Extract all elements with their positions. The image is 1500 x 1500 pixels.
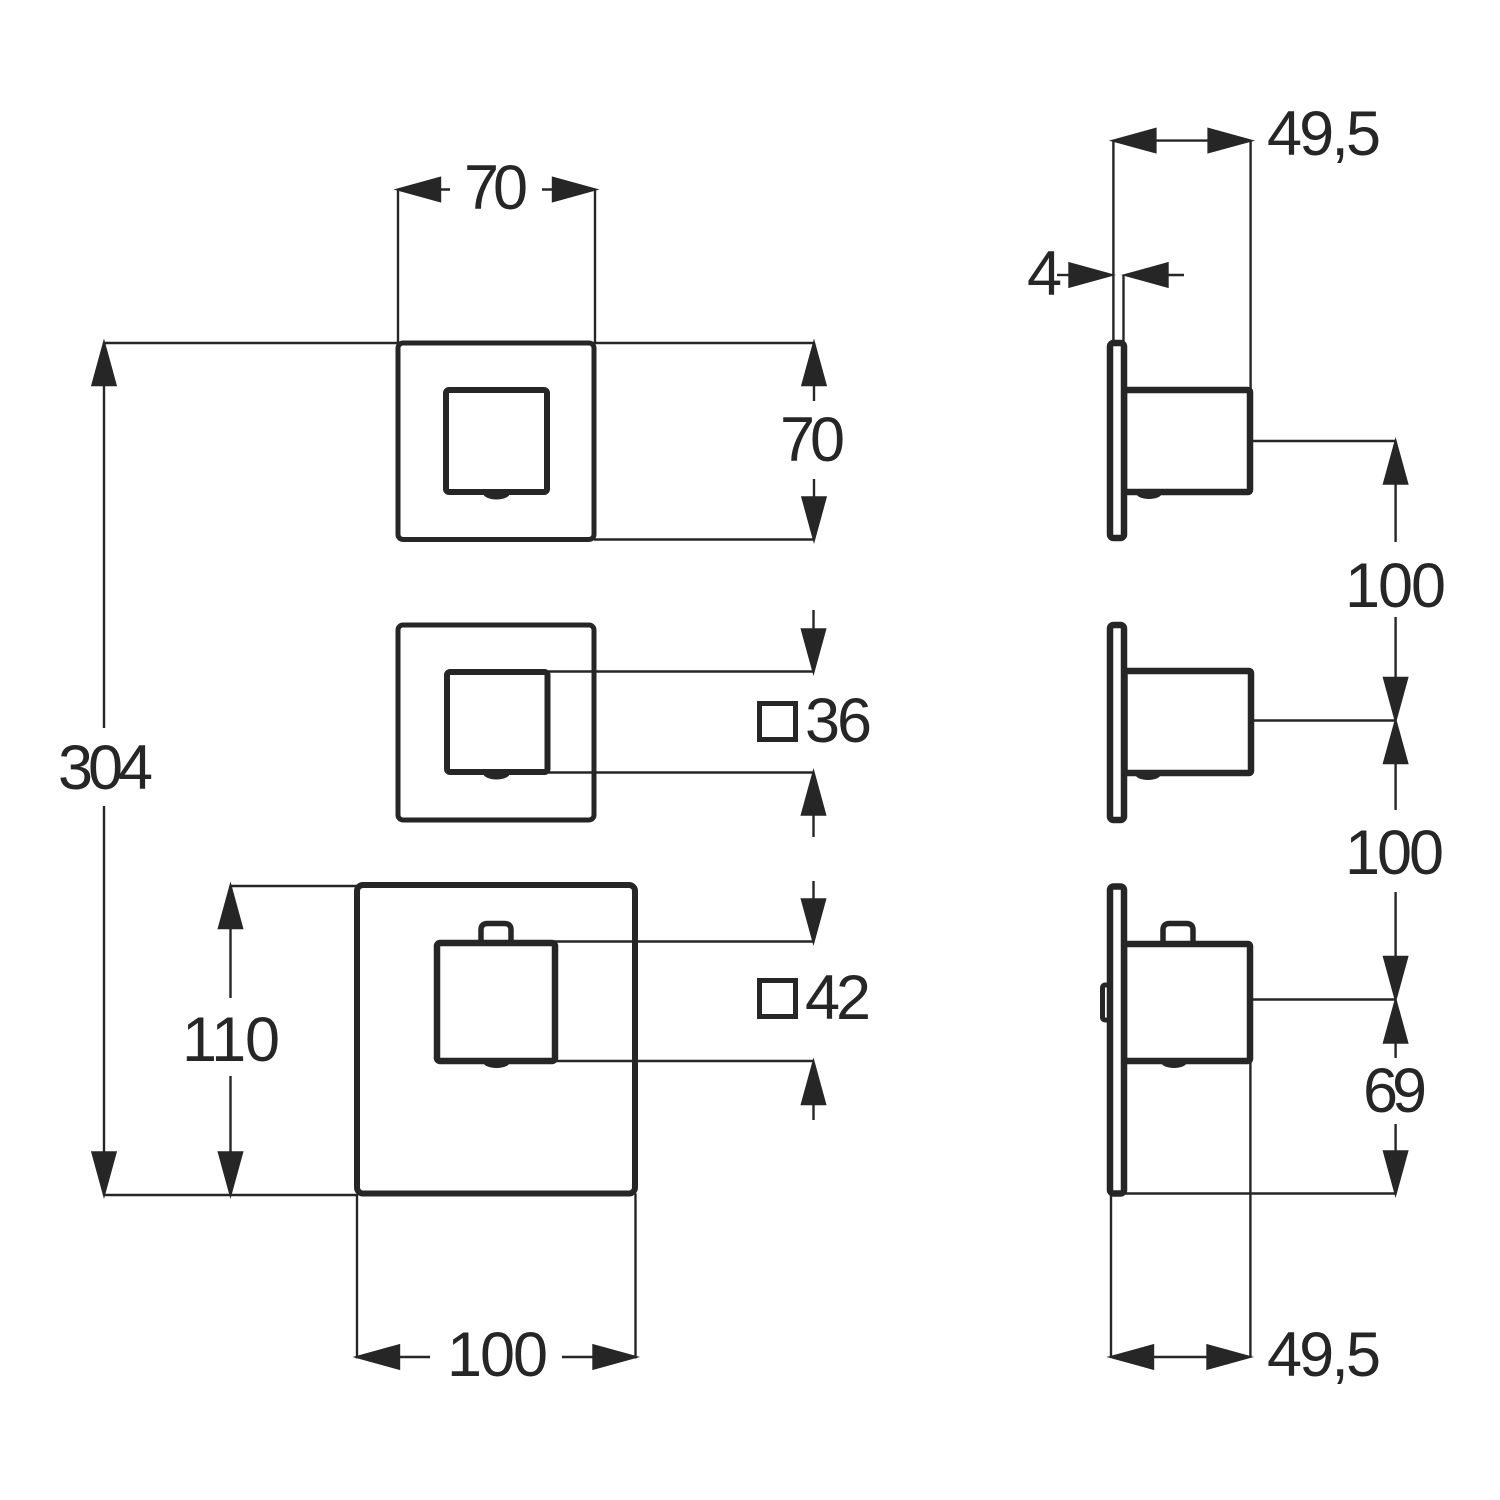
dimension 304 (overall height, far left): [103, 343, 105, 728]
escutcheon plate 1 (front, 70x70): [398, 343, 594, 540]
svg-text:304: 304: [58, 733, 153, 803]
dimension 49,5 (top depth): [1112, 141, 1114, 343]
dimension 69 (knob3 centre to flange bottom): [1384, 1001, 1407, 1043]
knob 2 indicator bump: [483, 773, 510, 780]
dimension square-36 (knob 2 size): [548, 670, 814, 672]
svg-text:4: 4: [1027, 239, 1062, 309]
side knob 3 tab: [1163, 924, 1193, 945]
svg-text:110: 110: [182, 1005, 280, 1075]
square symbol for 42: [760, 981, 796, 1017]
dimension 100 (bottom width of plate 3): [356, 1195, 358, 1359]
side knob 2: [1125, 671, 1252, 773]
square symbol for 36: [760, 704, 796, 740]
side knob 3: [1124, 944, 1250, 1061]
wire: bottom reference line y=1195 (304/110 dims): [104, 1194, 358, 1196]
side knob 1: [1124, 390, 1250, 492]
wire: knob 1 centre line: [1250, 440, 1396, 442]
side flange 2: [1110, 625, 1124, 820]
dimension 100 (knob1 to knob2 centres): [1384, 442, 1407, 484]
svg-text:70: 70: [464, 153, 528, 223]
svg-text:49,5: 49,5: [1267, 1320, 1381, 1390]
side knob 3 bump: [1161, 1062, 1187, 1068]
knob 1 (front, square 36): [446, 390, 547, 492]
dimension 4 (flange thickness): [1057, 274, 1070, 276]
dimension 110 (height of plate 3): [231, 885, 359, 887]
wire: knob 3 centre line: [1250, 998, 1396, 1000]
side knob 2 bump: [1135, 774, 1161, 780]
escutcheon plate 3 (front, 100x110): [357, 885, 635, 1194]
side knob 1 bump: [1136, 493, 1162, 499]
svg-text:49,5: 49,5: [1267, 99, 1381, 169]
svg-text:100: 100: [447, 1320, 548, 1390]
knob 3 indicator bump: [483, 1062, 510, 1068]
wire: top reference line y=343 (from 304-dim to 70-dim corner): [104, 342, 814, 344]
svg-text:36: 36: [805, 686, 872, 756]
dimension 100 (knob2 to knob3 centres): [1384, 721, 1407, 763]
side flange 3 left protrusion: [1103, 985, 1110, 1020]
side flange 1: [1110, 343, 1124, 538]
knob 1 indicator bump: [483, 493, 510, 500]
thermostat knob 3 (front, square 42): [437, 943, 555, 1061]
escutcheon plate 2 (front, 70x70): [398, 625, 594, 820]
svg-text:70: 70: [780, 405, 845, 475]
svg-text:69: 69: [1363, 1056, 1427, 1126]
wire: unit1 bottom edge extended right for 70-dim: [594, 538, 814, 540]
dimension 70 (height of plate 1, right side): [813, 343, 815, 385]
svg-text:42: 42: [805, 963, 871, 1033]
knob 2 (front, square 36): [447, 672, 548, 772]
dimension 49,5 (bottom depth): [1110, 1194, 1112, 1357]
svg-text:100: 100: [1345, 818, 1444, 888]
dimension 70 (top width of plate 1): [397, 190, 399, 344]
svg-text:100: 100: [1345, 551, 1446, 621]
dimension square-42 (knob 3 size): [550, 940, 814, 942]
wire: flange 3 bottom line: [1124, 1192, 1396, 1194]
wire: knob 2 centre line: [1251, 719, 1396, 721]
side flange 3: [1110, 887, 1124, 1194]
thermostat knob tab (front): [481, 924, 511, 945]
